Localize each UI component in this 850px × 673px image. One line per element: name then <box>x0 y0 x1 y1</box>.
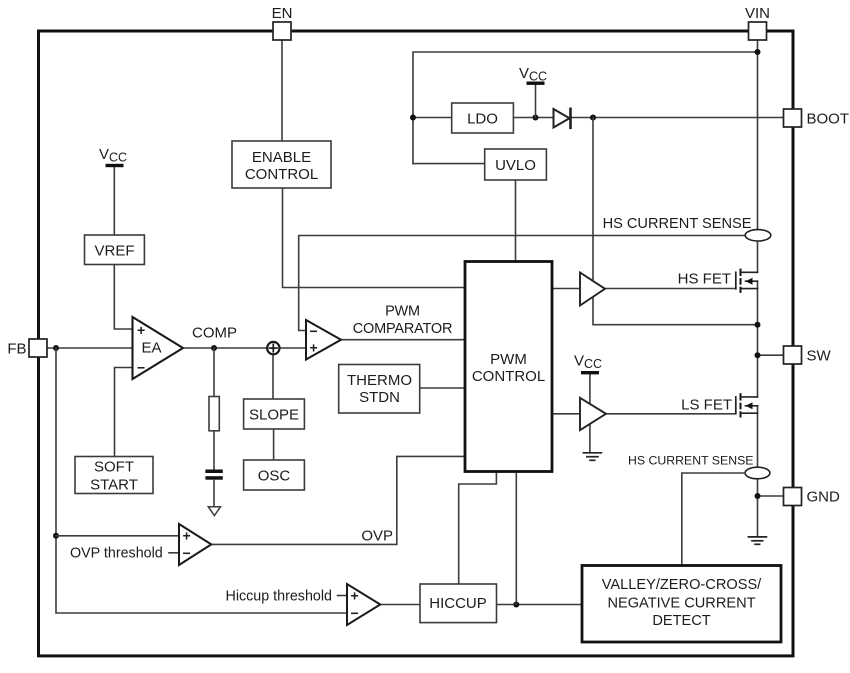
node: VCC tap on LDO output <box>533 115 539 121</box>
wire: VREF to EA + input <box>114 265 132 330</box>
power symbol VCC (LDO output) <box>519 65 547 118</box>
svg-text:HS CURRENT SENSE: HS CURRENT SENSE <box>603 216 752 232</box>
svg-text:HICCUP: HICCUP <box>429 595 487 612</box>
svg-text:LDO: LDO <box>467 111 498 128</box>
svg-text:EA: EA <box>141 340 161 357</box>
svg-text:FB: FB <box>7 341 26 358</box>
svg-text:VALLEY/ZERO-CROSS/: VALLEY/ZERO-CROSS/ <box>602 577 762 593</box>
svg-text:STDN: STDN <box>359 389 400 406</box>
svg-text:GND: GND <box>807 489 841 506</box>
svg-text:BOOT: BOOT <box>807 111 850 128</box>
wire: hiccup comparator output to HICCUP <box>380 604 420 606</box>
wire: VIN top loop to LDO/UVLO <box>757 40 759 272</box>
svg-text:VIN: VIN <box>745 5 770 22</box>
wire: Hiccup threshold stub <box>338 595 348 597</box>
svg-text:START: START <box>90 477 138 494</box>
wire: FB pin to EA <box>47 347 133 349</box>
wire: ENABLE CONTROL to PWM CONTROL <box>283 188 466 288</box>
wire: LDO input <box>413 117 452 119</box>
svg-text:OSC: OSC <box>258 468 291 485</box>
node: LDO input junction <box>410 115 416 121</box>
wire: PWM CONTROL bottom to hiccup line <box>515 472 517 605</box>
block UVLO <box>485 149 547 180</box>
current sense element (LS, on GND rail) <box>745 467 770 479</box>
svg-text:ENABLE: ENABLE <box>252 149 311 166</box>
node: SW junction <box>755 352 761 358</box>
wire: UVLO to PWM CONTROL <box>515 180 517 262</box>
svg-text:+: + <box>183 528 191 544</box>
wire: UVLO input <box>413 163 485 165</box>
node: VIN/LDO loop junction <box>755 49 761 55</box>
wire: LDO output to diode to BOOT <box>513 117 783 119</box>
svg-text:−: − <box>310 323 318 339</box>
block VREF <box>85 235 145 265</box>
svg-text:+: + <box>351 588 359 604</box>
svg-text:HS FET: HS FET <box>678 271 731 288</box>
current sense element (HS, on VIN rail) <box>745 230 771 241</box>
wire: PWM CONTROL to HICCUP dogleg <box>459 472 497 584</box>
comparator U4 (PWM comparator) <box>306 320 341 360</box>
wire: PWM comparator output <box>341 339 465 341</box>
wire: PWM CONTROL to LS driver <box>552 413 580 415</box>
node: FB branch <box>53 345 59 351</box>
wire: SLOPE to OSC <box>273 429 275 460</box>
svg-text:−: − <box>351 605 359 621</box>
block LDO <box>452 103 514 133</box>
pin SW <box>784 346 802 364</box>
node: OVP branch <box>53 533 59 539</box>
node: COMP branch <box>211 345 217 351</box>
wire: resistor to capacitor <box>213 431 215 469</box>
resistor R1 (COMP) <box>209 397 219 431</box>
power symbol VCC (VREF) <box>99 146 127 235</box>
wire: PWM CONTROL to HS driver <box>552 288 580 290</box>
svg-text:OVP threshold: OVP threshold <box>70 546 163 562</box>
capacitor C1 (COMP) <box>205 470 222 480</box>
wire: HS driver output to HS FET gate <box>605 288 736 290</box>
pin GND <box>784 488 802 506</box>
wire: BOOT rail down through HS driver to SW node <box>593 118 758 325</box>
wire: OVP comparator output to PWM CONTROL <box>211 456 465 544</box>
pin BOOT <box>784 109 802 127</box>
svg-text:COMPARATOR: COMPARATOR <box>353 321 453 337</box>
wire: EN pin to ENABLE CONTROL <box>281 40 283 141</box>
wire: COMP RC branch <box>213 348 215 397</box>
block SOFT START <box>75 457 153 494</box>
wire: SW pin connection <box>758 354 784 356</box>
summing node (slope compensation adder) <box>267 342 279 354</box>
wire: FB branch to OVP comparator + <box>56 535 179 537</box>
svg-text:SW: SW <box>807 348 832 365</box>
svg-text:THERMO: THERMO <box>347 372 412 389</box>
svg-text:EN: EN <box>272 5 293 22</box>
block PWM CONTROL <box>465 262 552 472</box>
pin VIN <box>749 22 767 40</box>
svg-text:UVLO: UVLO <box>495 157 536 174</box>
wire: LS sense to VALLEY detect <box>682 473 745 566</box>
block THERMO STDN <box>339 365 420 414</box>
node: boot return junction <box>755 322 761 328</box>
wire: THERMO STDN to PWM CONTROL <box>420 387 465 389</box>
block OSC <box>244 460 305 490</box>
pin EN <box>273 22 291 40</box>
svg-text:CONTROL: CONTROL <box>472 368 545 385</box>
block HICCUP <box>420 584 497 623</box>
svg-text:Hiccup threshold: Hiccup threshold <box>226 589 333 605</box>
svg-text:COMP: COMP <box>192 325 237 342</box>
block ENABLE CONTROL <box>232 141 331 188</box>
wire: GND pin connection <box>758 495 784 497</box>
wire: FB down to OVP and hiccup comparators <box>56 348 347 613</box>
wire: LS driver output to LS FET gate <box>606 413 736 415</box>
svg-text:HS CURRENT SENSE: HS CURRENT SENSE <box>628 454 754 468</box>
gate driver U3 (LS) <box>580 398 606 430</box>
svg-text:+: + <box>310 340 318 356</box>
gate driver U2 (HS) <box>580 273 605 306</box>
wire: summing node to SLOPE <box>272 354 274 399</box>
wire: SW rail (HS source to LS drain, SW pin, LS source down) <box>757 281 759 397</box>
wire: HICCUP to VALLEY detect <box>497 604 583 606</box>
transistor Q2 LS FET <box>736 393 758 417</box>
svg-text:−: − <box>183 545 191 561</box>
ground (LS driver) <box>583 453 601 461</box>
svg-text:PWM: PWM <box>385 304 420 320</box>
svg-text:+: + <box>137 322 145 338</box>
ground (power ground below GND) <box>748 537 766 544</box>
block VALLEY/ZERO-CROSS/NEGATIVE CURRENT DETECT <box>582 566 781 643</box>
wire: OVP threshold stub <box>169 552 179 554</box>
power symbol VCC (LS driver) with pass-through to ground <box>574 353 602 453</box>
svg-text:−: − <box>137 360 145 376</box>
transistor Q1 HS FET <box>736 269 758 293</box>
op-amp EA (error amplifier) <box>133 317 184 379</box>
ground (open triangle, COMP) <box>208 507 220 516</box>
block SLOPE <box>244 399 305 429</box>
diode D1 (bootstrap) <box>554 109 571 128</box>
svg-text:LS FET: LS FET <box>681 397 732 414</box>
pin FB <box>29 339 47 357</box>
comparator U6 (hiccup) <box>347 584 380 625</box>
comparator U5 (OVP) <box>179 524 211 565</box>
svg-text:SOFT: SOFT <box>94 459 134 476</box>
svg-text:DETECT: DETECT <box>652 613 710 629</box>
node: GND junction <box>755 493 761 499</box>
svg-text:VREF: VREF <box>94 243 134 260</box>
svg-text:OVP: OVP <box>361 528 393 545</box>
svg-text:CONTROL: CONTROL <box>245 166 318 183</box>
wire: EA output COMP line to PWM comparator + <box>183 347 306 349</box>
wire: HS current sense line to PWM comparator <box>299 236 746 331</box>
wire: EA - input to SOFT START <box>115 368 133 457</box>
node: PWM control / hiccup line junction <box>513 602 519 608</box>
node: diode cathode junction <box>590 115 596 121</box>
svg-text:PWM: PWM <box>490 351 527 368</box>
svg-text:SLOPE: SLOPE <box>249 407 299 424</box>
svg-text:NEGATIVE CURRENT: NEGATIVE CURRENT <box>607 596 755 612</box>
wire: capacitor to ground arrow <box>213 480 215 507</box>
